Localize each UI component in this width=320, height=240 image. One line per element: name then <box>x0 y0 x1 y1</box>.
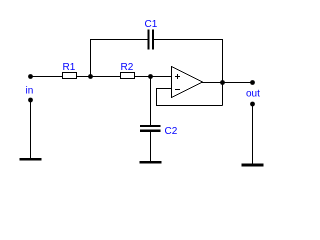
ground right <box>242 164 264 167</box>
node B junction R2-C2 <box>148 74 153 79</box>
node out ground pin <box>250 102 255 107</box>
wire in ground stub <box>30 100 32 159</box>
wire C2 to ground <box>150 131 152 162</box>
wire node A up <box>90 40 92 77</box>
node A junction R1-R2-C1 <box>88 74 93 79</box>
svg-text:R1: R1 <box>63 62 76 73</box>
wire top to C1 left <box>90 39 148 41</box>
ground middle <box>140 161 162 164</box>
resistor R1 <box>63 73 77 79</box>
svg-text:C2: C2 <box>165 126 178 137</box>
svg-text:R2: R2 <box>121 62 134 73</box>
svg-text:C1: C1 <box>145 19 158 30</box>
wire op-amp output to out <box>202 82 253 84</box>
wire output branch down <box>222 40 224 106</box>
wire feedback to - input <box>157 89 223 106</box>
wire node B down to C2 <box>150 77 152 126</box>
capacitor C2 <box>140 125 161 132</box>
wire R1 to R2 <box>77 76 121 78</box>
wire R2 to op-amp + input <box>135 76 172 78</box>
op-amp U1 <box>172 67 203 98</box>
node output junction <box>220 80 225 85</box>
wire C1 right to output branch <box>154 39 223 41</box>
node out terminal <box>250 80 255 85</box>
node in terminal <box>28 74 33 79</box>
wire out ground stub <box>252 104 254 164</box>
capacitor C1 <box>148 30 155 50</box>
ground left <box>20 158 42 161</box>
resistor R2 <box>121 73 135 79</box>
wire in to R1 <box>31 76 63 78</box>
svg-text:out: out <box>246 89 260 100</box>
svg-text:in: in <box>26 86 34 97</box>
node in ground pin <box>28 98 33 103</box>
